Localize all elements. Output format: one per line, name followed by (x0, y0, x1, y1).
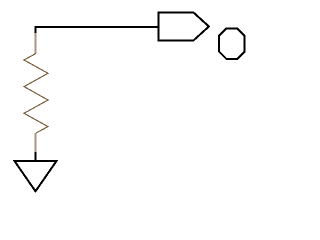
ground (15, 152, 57, 191)
wire (36, 27, 160, 34)
port P1 (159, 13, 209, 41)
resistor R1 (24, 33, 48, 153)
node (octagon) (219, 28, 245, 59)
